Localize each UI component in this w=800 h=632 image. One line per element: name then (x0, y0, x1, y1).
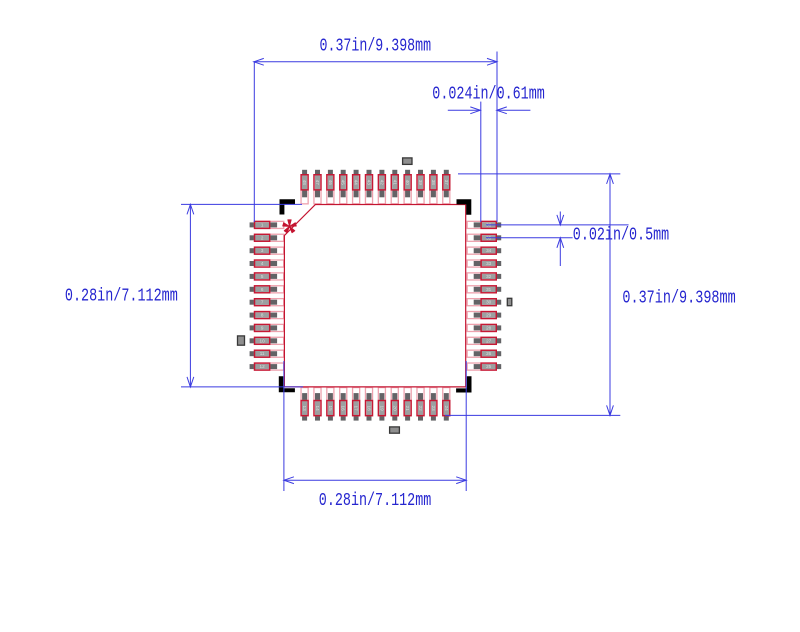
pad 37 (top row) (443, 170, 450, 204)
svg-text:12: 12 (260, 364, 266, 369)
extension line D1 right (496, 52, 498, 223)
pad 13 (bottom row) (301, 388, 308, 421)
svg-text:28: 28 (486, 325, 492, 330)
svg-text:40: 40 (405, 180, 410, 186)
pad 43 (top row) (365, 170, 372, 204)
pad 45 (top row) (340, 170, 347, 204)
fiducial marker left (238, 336, 245, 345)
svg-text:29: 29 (486, 313, 492, 318)
svg-text:3: 3 (261, 248, 264, 253)
pad 30 (right column) (467, 299, 501, 306)
svg-text:15: 15 (328, 406, 333, 412)
svg-text:0.02in/0.5mm: 0.02in/0.5mm (573, 225, 669, 246)
pad 1 (left column) (250, 221, 284, 228)
svg-text:1: 1 (261, 222, 264, 227)
pad 10 (left column) (250, 337, 284, 344)
pad 24 (bottom row) (443, 388, 450, 421)
IC package body outline U1 (chamfered pin-1 corner) (284, 205, 465, 387)
svg-text:6: 6 (261, 287, 264, 292)
pad 35 (right column) (467, 234, 501, 241)
corner bracket top-left (280, 199, 296, 214)
pad 7 (left column) (250, 299, 284, 306)
pad 31 (right column) (467, 286, 501, 293)
pad 21 (bottom row) (404, 388, 411, 421)
dimension line D5 with arrows (187, 204, 194, 387)
pad 33 (right column) (467, 260, 501, 267)
svg-text:9: 9 (261, 325, 264, 330)
svg-text:17: 17 (354, 406, 359, 412)
svg-text:45: 45 (341, 180, 346, 186)
svg-text:41: 41 (392, 180, 397, 186)
extension line D6 right (465, 361, 467, 491)
pad 47 (top row) (314, 170, 321, 204)
pad 17 (bottom row) (353, 388, 360, 421)
svg-text:39: 39 (418, 180, 423, 186)
pad 42 (top row) (378, 170, 385, 204)
svg-text:0.28in/7.112mm: 0.28in/7.112mm (319, 490, 432, 511)
dimension leader D2 right with arrow (497, 107, 531, 114)
svg-text:7: 7 (261, 300, 264, 305)
svg-text:4: 4 (261, 261, 264, 266)
pad 32 (right column) (467, 273, 501, 280)
pad 29 (right column) (467, 312, 501, 319)
svg-text:0.28in/7.112mm: 0.28in/7.112mm (65, 285, 178, 306)
svg-text:0.37in/9.398mm: 0.37in/9.398mm (320, 35, 432, 56)
pad 16 (bottom row) (340, 388, 347, 421)
pad 46 (top row) (327, 170, 334, 204)
svg-text:20: 20 (392, 406, 397, 412)
pin 1 marker asterisk (283, 220, 297, 233)
svg-text:0.024in/0.61mm: 0.024in/0.61mm (432, 84, 545, 105)
pad 20 (bottom row) (391, 388, 398, 421)
pad 25 (right column) (467, 363, 501, 370)
svg-text:21: 21 (405, 406, 410, 412)
svg-text:47: 47 (315, 180, 320, 186)
extension line D4 top (458, 173, 620, 175)
fiducial marker right (507, 298, 512, 305)
pad 6 (left column) (250, 286, 284, 293)
pad 41 (top row) (391, 170, 398, 204)
svg-text:11: 11 (260, 351, 265, 356)
svg-text:33: 33 (486, 261, 492, 266)
svg-text:44: 44 (354, 180, 359, 186)
extension line D1 left (253, 62, 255, 222)
pad 40 (top row) (404, 170, 411, 204)
svg-text:43: 43 (367, 180, 372, 186)
fiducial marker bottom (390, 427, 400, 433)
svg-text:2: 2 (261, 235, 264, 240)
dimension leader D3 upper (pin 36) (486, 224, 629, 226)
svg-text:42: 42 (379, 180, 384, 186)
svg-text:14: 14 (315, 406, 320, 412)
pad 18 (bottom row) (365, 388, 372, 421)
svg-text:10: 10 (260, 338, 266, 343)
svg-text:24: 24 (444, 406, 449, 412)
svg-text:26: 26 (486, 351, 492, 356)
svg-text:31: 31 (486, 287, 492, 292)
pad 12 (left column) (250, 363, 284, 370)
pad 4 (left column) (250, 260, 284, 267)
dimension leader D3 lower (pin 35) (486, 237, 573, 239)
pad 8 (left column) (250, 312, 284, 319)
corner bracket top-right (457, 199, 472, 215)
svg-text:16: 16 (341, 406, 346, 412)
pad 28 (right column) (467, 324, 501, 331)
svg-text:23: 23 (431, 406, 436, 412)
svg-text:13: 13 (302, 406, 307, 412)
svg-text:34: 34 (486, 248, 492, 253)
pad 27 (right column) (467, 337, 501, 344)
svg-text:0.37in/9.398mm: 0.37in/9.398mm (622, 287, 735, 308)
pad 39 (top row) (417, 170, 424, 204)
corner bracket bottom-left (279, 376, 295, 392)
dimension line D3 with arrows (557, 212, 564, 267)
svg-text:25: 25 (486, 364, 492, 369)
pad 9 (left column) (250, 324, 284, 331)
svg-text:48: 48 (302, 180, 307, 186)
pad 26 (right column) (467, 350, 501, 357)
svg-text:18: 18 (367, 406, 372, 412)
extension line D2 pad inner edge (480, 102, 482, 222)
extension line D5 top (181, 203, 302, 205)
svg-text:37: 37 (444, 180, 449, 186)
pad 44 (top row) (353, 170, 360, 204)
pad 22 (bottom row) (417, 388, 424, 421)
extension line D4 bottom (445, 414, 620, 416)
pad 19 (bottom row) (378, 388, 385, 421)
pad 38 (top row) (430, 170, 437, 204)
svg-text:19: 19 (379, 406, 384, 412)
pad 14 (bottom row) (314, 388, 321, 421)
svg-text:38: 38 (431, 180, 436, 186)
pad 5 (left column) (250, 273, 284, 280)
pad 34 (right column) (467, 247, 501, 254)
svg-text:5: 5 (261, 274, 264, 279)
svg-text:22: 22 (418, 406, 423, 412)
pad 15 (bottom row) (327, 388, 334, 421)
pad 48 (top row) (301, 170, 308, 204)
extension line D5 bottom (181, 386, 303, 388)
pad 2 (left column) (250, 234, 284, 241)
svg-text:32: 32 (486, 274, 492, 279)
svg-text:27: 27 (486, 338, 492, 343)
pad 11 (left column) (250, 350, 284, 357)
dimension leader D2 left with arrow (448, 107, 481, 114)
svg-text:30: 30 (486, 300, 492, 305)
pad 23 (bottom row) (430, 388, 437, 421)
dimension line D4 with arrows (607, 174, 614, 416)
dimension line D6 with arrows (284, 477, 466, 484)
svg-text:46: 46 (328, 180, 333, 186)
pad 36 (right column) (467, 221, 501, 228)
svg-text:8: 8 (261, 313, 264, 318)
dimension line D1 overall width (top) (254, 58, 497, 65)
fiducial marker top (403, 158, 412, 165)
extension line D6 left (283, 361, 285, 491)
corner bracket bottom-right (456, 376, 471, 392)
pad 3 (left column) (250, 247, 284, 254)
